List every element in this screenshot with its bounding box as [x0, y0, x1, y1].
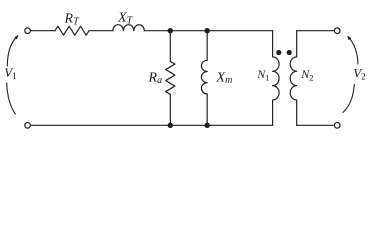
V2 arrowhead — [347, 36, 351, 40]
resistor R_a branch — [166, 31, 175, 126]
V2 arrow arc lower — [343, 85, 354, 113]
wire top rail left segment — [31, 30, 55, 32]
resistor R_T — [55, 26, 89, 35]
wire secondary bottom to terminal — [297, 124, 335, 126]
terminal top-right — [334, 28, 340, 34]
V1 arrow arc lower — [7, 83, 16, 114]
junction node bottom X_m — [205, 123, 210, 128]
terminal top-left — [25, 28, 31, 34]
wire bottom rail — [31, 124, 273, 126]
wire secondary top to terminal — [297, 30, 335, 32]
V2 arrow arc upper — [348, 37, 358, 65]
inductor X_T — [113, 25, 144, 31]
terminal bottom-right — [334, 123, 340, 129]
wire between R_T and X_T — [89, 30, 113, 32]
terminal bottom-left — [25, 123, 31, 129]
V1 arrowhead — [14, 35, 18, 39]
wire top rail to transformer — [144, 30, 272, 32]
polarity dot N2 — [287, 50, 292, 55]
polarity dot N1 — [276, 50, 281, 55]
junction node top R_a — [168, 28, 173, 33]
V1 arrow arc upper — [7, 36, 17, 66]
transformer primary winding N1 — [273, 31, 280, 126]
junction node top X_m — [205, 28, 210, 33]
junction node bottom R_a — [168, 123, 173, 128]
inductor X_m branch — [201, 31, 207, 126]
transformer secondary winding N2 — [290, 31, 297, 126]
